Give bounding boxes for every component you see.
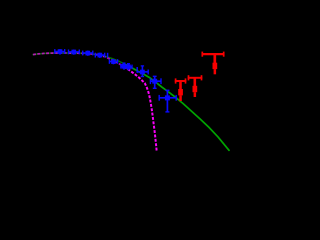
data point P4: [95, 53, 105, 58]
data point P8: [137, 66, 148, 77]
blue data points with error bars: [55, 49, 177, 112]
data point P1: [55, 49, 65, 55]
data point P2: [68, 50, 79, 55]
extra overlapping cap right of P4: [107, 53, 109, 58]
upper limit arrow A3: [202, 52, 225, 75]
data point P7: [126, 64, 132, 71]
upper limit arrow A2: [188, 75, 203, 97]
green model curve, dim upper section: [33, 53, 126, 65]
spectral plot on black background: [0, 0, 235, 175]
magenta dashed curve, dim upper section: [33, 53, 124, 67]
data point P3: [83, 51, 94, 56]
data point P5: [109, 59, 118, 64]
red upper limit arrows: [175, 52, 225, 101]
data point P9: [150, 76, 161, 88]
upper limit arrow A1: [175, 78, 187, 101]
data point P10: [159, 90, 176, 112]
magenta dashed curve, bright steep section: [124, 67, 157, 152]
green model curve, bright lower section: [126, 65, 229, 151]
data point P6: [121, 63, 128, 70]
